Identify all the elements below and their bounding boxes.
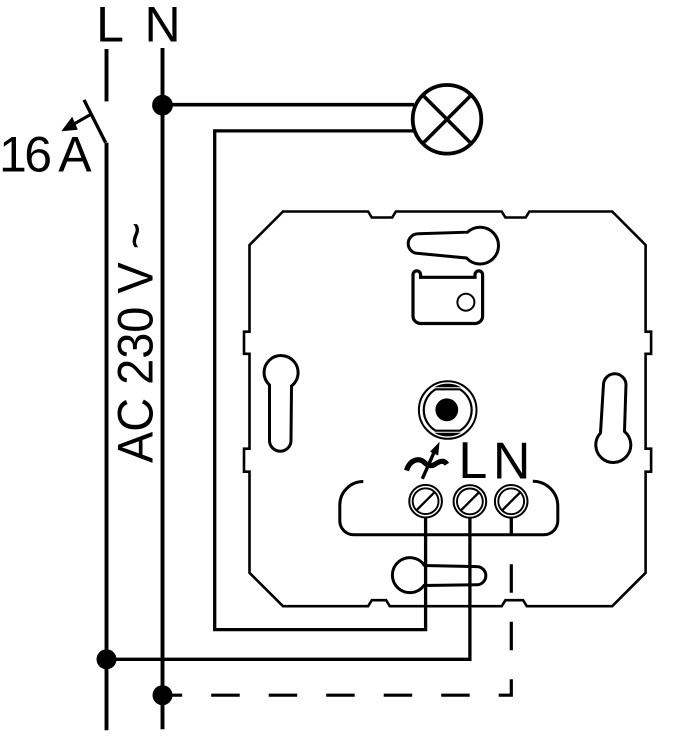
- svg-text:L: L: [96, 0, 124, 53]
- knob top black segment: [434, 384, 461, 388]
- device plate outline: [244, 212, 651, 607]
- wire N to lamp: [163, 103, 415, 107]
- switch S1 actuator arrow shaft: [68, 114, 91, 127]
- lamp E1 circle: [413, 85, 482, 154]
- switch S1 16A breaker blade: [84, 100, 106, 143]
- wire lamp return: lamp to down-left loop to terminal 1: [215, 131, 426, 630]
- wire terminal N dashed: [163, 564, 512, 695]
- terminal screw 2: [454, 485, 487, 518]
- terminal screw 3: [495, 485, 528, 518]
- lamp E1 cross: [423, 95, 472, 144]
- dimmer arrow head: [430, 442, 440, 456]
- svg-text:16 A: 16 A: [0, 127, 92, 183]
- terminal screw 1: [409, 485, 442, 518]
- component box with ears: [413, 271, 483, 324]
- wire terminal L to L line: [107, 512, 470, 659]
- component box small circle: [457, 294, 474, 311]
- knob outer circle: [419, 381, 477, 439]
- junction dot on N line: [153, 685, 173, 705]
- terminal compartment outline: [340, 481, 558, 535]
- switch S1 actuator arrow head: [61, 117, 78, 132]
- dimmer wave symbol: [407, 460, 447, 471]
- dimmer arrow shaft: [422, 448, 436, 479]
- svg-text:N: N: [493, 433, 531, 491]
- svg-text:N: N: [144, 0, 180, 53]
- junction dot N top: [152, 95, 173, 116]
- fixing slot right (keyhole): [596, 374, 631, 463]
- knob center dot: [435, 398, 458, 421]
- wire L line upper segment: [105, 49, 109, 101]
- wire N line: [161, 48, 165, 729]
- wire L line lower segment: [105, 143, 109, 731]
- claw slot top (keyhole): [408, 227, 498, 264]
- fixing slot left (keyhole): [264, 356, 298, 452]
- knob barrel: [424, 389, 472, 430]
- svg-text:L: L: [458, 432, 487, 490]
- claw slot bottom (keyhole): [392, 558, 485, 593]
- junction dot on L line: [97, 649, 117, 669]
- wire terminal N solid stub: [510, 512, 513, 536]
- svg-text:AC 230 V ~: AC 230 V ~: [107, 222, 163, 463]
- knob bottom black segment: [434, 433, 461, 437]
